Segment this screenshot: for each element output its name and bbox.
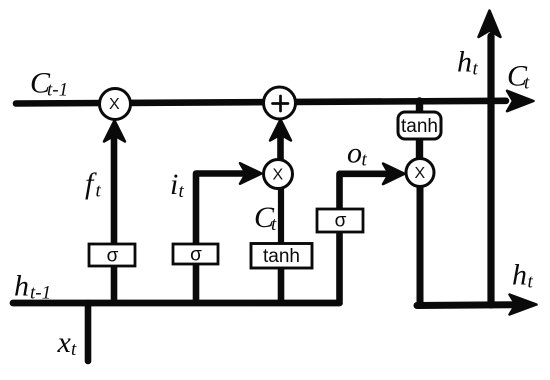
svg-text:t: t (524, 73, 530, 94)
svg-text:o: o (347, 137, 362, 170)
svg-text:t: t (271, 214, 277, 235)
svg-text:t: t (362, 150, 368, 171)
svg-text:h: h (457, 46, 472, 79)
svg-text:tanh: tanh (401, 116, 438, 137)
svg-text:t-1: t-1 (30, 283, 51, 304)
svg-text:σ: σ (190, 245, 202, 266)
svg-text:tanh: tanh (263, 246, 300, 267)
svg-text:t: t (528, 272, 534, 293)
svg-text:σ: σ (107, 246, 119, 267)
svg-text:X: X (272, 167, 283, 184)
svg-text:h: h (14, 270, 29, 303)
svg-text:x: x (57, 326, 72, 359)
svg-text:t: t (473, 59, 479, 80)
svg-text:i: i (170, 168, 178, 201)
svg-text:X: X (109, 96, 120, 113)
svg-text:t-1: t-1 (47, 80, 68, 101)
svg-text:t: t (71, 339, 77, 360)
svg-text:t: t (179, 181, 185, 202)
svg-text:h: h (512, 259, 527, 292)
svg-text:t: t (96, 181, 102, 202)
svg-text:X: X (414, 165, 425, 182)
svg-text:σ: σ (335, 211, 347, 232)
